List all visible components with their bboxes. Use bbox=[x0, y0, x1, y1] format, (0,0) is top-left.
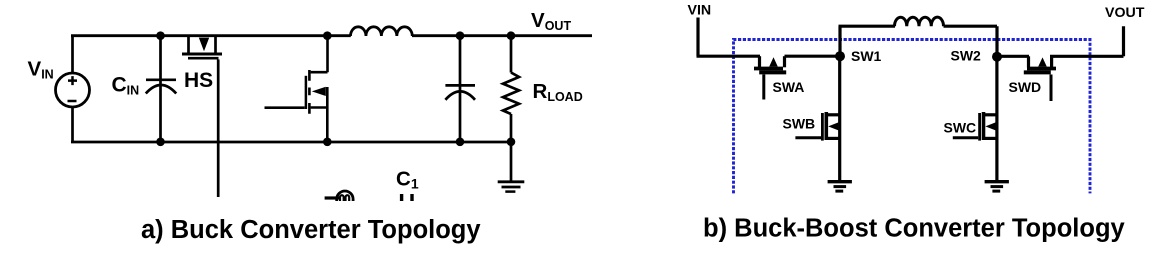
svg-text:a) Buck Converter Topology: a) Buck Converter Topology bbox=[141, 216, 481, 244]
wire top rail bbox=[71, 34, 592, 37]
svg-text:b) Buck-Boost Converter Topolo: b) Buck-Boost Converter Topology bbox=[703, 215, 1126, 243]
transistor SWA bbox=[754, 56, 786, 99]
node switch top bbox=[323, 31, 332, 40]
resistor RLOAD bbox=[503, 36, 519, 181]
wire bottom rail bbox=[71, 141, 511, 144]
cropped coil (partial figure below) bbox=[325, 191, 354, 201]
ground bbox=[498, 182, 525, 192]
transistor SWD bbox=[1024, 56, 1056, 101]
svg-text:SWB: SWB bbox=[783, 116, 816, 132]
svg-text:SWD: SWD bbox=[1009, 79, 1042, 95]
node COUT top bbox=[456, 31, 465, 40]
capacitor C1 plates (cropped) bbox=[402, 194, 412, 201]
dashed boundary box bbox=[734, 40, 1091, 194]
wire SW2 to SWD bbox=[997, 55, 1030, 58]
wire SWD to VOUT bbox=[1050, 26, 1124, 56]
node RLOAD top bbox=[507, 31, 516, 40]
ground SWB bbox=[828, 182, 852, 191]
capacitor COUT bbox=[445, 36, 475, 142]
capacitor CIN bbox=[146, 36, 176, 142]
node switch bottom bbox=[323, 138, 332, 147]
ground SWC bbox=[985, 182, 1009, 191]
svg-text:RLOAD: RLOAD bbox=[533, 80, 583, 104]
node COUT bottom bbox=[456, 138, 465, 147]
wire SW1 riser and top bbox=[839, 26, 896, 56]
svg-text:SW1: SW1 bbox=[851, 48, 882, 64]
node CIN top bbox=[156, 31, 165, 40]
transistor SWB bbox=[795, 56, 839, 180]
wire VIN source branch bbox=[71, 35, 74, 144]
wire inductor to SW2 bbox=[944, 26, 998, 58]
transistor SWC bbox=[953, 57, 997, 181]
node SW1 bbox=[835, 51, 845, 61]
node CIN bottom bbox=[156, 138, 165, 147]
svg-text:VIN: VIN bbox=[28, 58, 54, 82]
svg-text:SWA: SWA bbox=[773, 79, 805, 95]
svg-text:VOUT: VOUT bbox=[1105, 5, 1145, 21]
svg-text:CIN: CIN bbox=[112, 74, 140, 98]
svg-text:SW2: SW2 bbox=[951, 48, 982, 64]
inductor L bbox=[351, 27, 413, 36]
transistor LS bbox=[265, 35, 328, 144]
inductor L (right) bbox=[895, 17, 944, 26]
svg-text:VIN: VIN bbox=[688, 3, 712, 19]
svg-text:HS: HS bbox=[184, 69, 213, 92]
node RLOAD bottom bbox=[507, 138, 516, 147]
svg-text:C1: C1 bbox=[396, 168, 419, 192]
wire SWA to SW1 bbox=[785, 55, 842, 58]
wire VIN input bbox=[697, 18, 761, 57]
transistor HS bbox=[182, 36, 222, 197]
svg-text:VOUT: VOUT bbox=[531, 9, 571, 33]
voltage source VIN bbox=[56, 73, 90, 107]
node SW2 bbox=[992, 52, 1002, 62]
svg-text:SWC: SWC bbox=[944, 120, 977, 136]
